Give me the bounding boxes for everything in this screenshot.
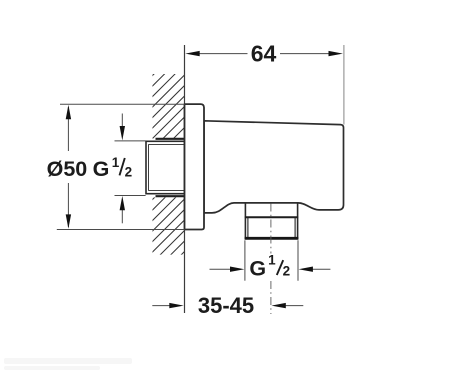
dimension D50: bottom extension line — [57, 229, 185, 231]
faint bottom-left watermark — [4, 358, 132, 370]
svg-text:2: 2 — [283, 264, 291, 279]
svg-text:64: 64 — [251, 41, 277, 67]
centerline of outlet (lower part) — [270, 281, 272, 314]
dimension 64: right arrow — [329, 51, 343, 56]
wall line — [184, 45, 186, 313]
dimension D50: bottom arrow — [66, 214, 71, 228]
dimension G1/2 bottom: right extension line — [297, 240, 299, 280]
dimension G1/2 left: lower extension line — [115, 195, 146, 197]
outlet thread inner lines — [247, 217, 249, 237]
wall hole bottom edge — [156, 195, 185, 197]
wall hole top edge — [156, 138, 185, 140]
dimension G1/2 left: upper extension line — [115, 140, 146, 142]
outlet thread shoulder — [245, 216, 298, 218]
dimension G1/2 left: lower arrow line — [121, 210, 123, 224]
dimension G1/2 bottom: right arrow — [312, 268, 330, 270]
dimension 35-45: right arrow line — [285, 305, 303, 307]
dimension 64: left arrow — [185, 51, 199, 56]
dimension D50: top arrow — [66, 105, 71, 119]
svg-text:G: G — [93, 157, 110, 181]
svg-text:G: G — [249, 256, 266, 280]
svg-text:2: 2 — [125, 165, 133, 180]
dimension 64: right extension line — [343, 45, 345, 125]
flange (escutcheon on wall) — [185, 104, 205, 229]
wall hatching upper — [0, 0, 323, 320]
dimension G1/2 bottom: left extension line — [244, 240, 246, 280]
dimension 64: dimension line — [198, 53, 248, 55]
dimension D50: dimension line — [67, 107, 69, 151]
dimension D50: top extension line — [60, 103, 185, 105]
svg-text:Ø50: Ø50 — [47, 157, 88, 181]
centerline of outlet (upper part) — [270, 204, 272, 254]
outlet boss sides — [244, 203, 246, 239]
dimension G1/2 bottom: left arrow — [210, 268, 232, 270]
svg-text:1: 1 — [268, 253, 276, 268]
svg-text:1: 1 — [112, 155, 120, 170]
dimension G1/2 left: upper arrow line — [121, 114, 123, 128]
body (horizontal union body) — [204, 121, 344, 213]
inlet thread rectangle (G1/2 union in wall) — [146, 141, 185, 193]
outlet bottom edge — [245, 237, 299, 240]
wall hatching lower — [32, 0, 436, 320]
dimension 35-45: left arrow line — [152, 305, 170, 307]
svg-text:35-45: 35-45 — [198, 293, 254, 318]
